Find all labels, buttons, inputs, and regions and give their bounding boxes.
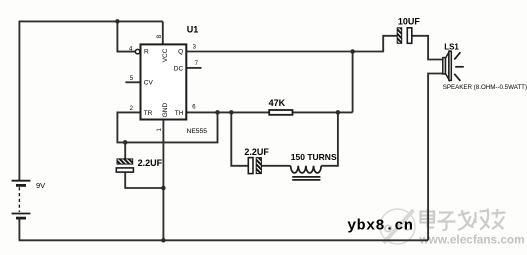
svg-text:CV: CV xyxy=(144,80,154,87)
svg-text:DC: DC xyxy=(174,65,184,72)
wire DC pin 7 stub xyxy=(186,67,201,69)
watermark logo circle (elecfans) xyxy=(380,209,415,244)
wire Q to TH link xyxy=(352,52,354,113)
speaker label LS1 xyxy=(444,42,459,51)
wire to C1 top xyxy=(124,142,126,159)
inductor L1 150 TURNS coil xyxy=(291,166,322,180)
svg-text:10UF: 10UF xyxy=(398,16,421,26)
svg-text:TR: TR xyxy=(144,110,153,117)
battery V1 9V xyxy=(12,181,31,218)
wire bottom rail xyxy=(19,239,429,241)
svg-text:1: 1 xyxy=(157,128,163,132)
capacitor C1 label 2.2UF xyxy=(138,158,163,168)
op-amp U1 NE555 box xyxy=(135,44,186,119)
wire rail to VCC pin 8 xyxy=(162,21,164,44)
pin name DC xyxy=(174,65,184,72)
resistor label 47K xyxy=(269,98,286,108)
capacitor C3 10UF xyxy=(397,28,412,44)
watermark ybx8.cn xyxy=(347,218,413,235)
node Q junction xyxy=(350,49,355,54)
node TH/TR-link xyxy=(215,110,220,115)
pin name TR xyxy=(144,110,153,117)
pin name VCC (rotated) xyxy=(162,48,169,62)
wire Q to C3 xyxy=(353,36,398,52)
capacitor C3 label 10UF xyxy=(398,16,421,26)
watermark chinese characters 电子发烧友 xyxy=(421,209,506,231)
pin number 7 xyxy=(195,61,199,67)
svg-text:ybx8.cn: ybx8.cn xyxy=(347,218,413,235)
wire L1 right to TH xyxy=(321,112,338,165)
pin number 3 xyxy=(193,44,197,50)
speaker LS1 xyxy=(443,51,464,81)
wire CV pin 5 stub xyxy=(125,81,140,83)
U1 part label NE555 xyxy=(187,128,208,135)
svg-text:VCC: VCC xyxy=(162,48,169,62)
wire TH branch to C2 xyxy=(231,112,248,165)
svg-text:5: 5 xyxy=(130,76,134,82)
svg-text:150 TURNS: 150 TURNS xyxy=(291,152,337,162)
speaker subtitle xyxy=(443,84,527,91)
svg-text:2.2UF: 2.2UF xyxy=(138,158,163,168)
wire C2 to L1 xyxy=(262,165,291,167)
svg-text:47K: 47K xyxy=(269,98,286,108)
capacitor C1 2.2UF (under IC) xyxy=(116,159,133,172)
svg-text:NE555: NE555 xyxy=(187,128,208,135)
node TH/C2 branch xyxy=(229,110,234,115)
wire C1 bottom to gnd xyxy=(125,172,163,188)
wire C3 to LS1 top xyxy=(412,36,443,60)
svg-text:TH: TH xyxy=(175,110,184,117)
capacitor C2 2.2UF (series with coil) xyxy=(248,158,261,174)
pin name TH xyxy=(175,110,184,117)
watermark url www.elecfans.com xyxy=(419,233,525,247)
battery label 9V xyxy=(36,181,45,190)
svg-text:2: 2 xyxy=(130,106,134,112)
wire LS1 bottom return xyxy=(428,74,443,241)
pin name R xyxy=(144,49,149,56)
svg-text:www.elecfans.com: www.elecfans.com xyxy=(419,233,525,247)
pin number 5 xyxy=(130,76,134,82)
node TH/L1 branch xyxy=(336,110,341,115)
svg-text:7: 7 xyxy=(195,61,199,67)
wire TR pin 2 net xyxy=(117,112,217,142)
svg-text:Q: Q xyxy=(178,49,183,56)
pin name Q xyxy=(178,49,183,56)
wire battery - to bottom rail xyxy=(18,218,20,240)
svg-text:6: 6 xyxy=(192,105,196,111)
pin name CV xyxy=(144,80,154,87)
node C1/GND xyxy=(161,186,166,191)
node GND/bottom rail xyxy=(161,238,166,243)
pin number 6 xyxy=(192,105,196,111)
svg-text:U1: U1 xyxy=(187,24,199,34)
wire TH pin 6 xyxy=(186,111,352,113)
svg-text:2.2UF: 2.2UF xyxy=(244,147,269,157)
capacitor C2 label 2.2UF xyxy=(244,147,269,157)
wire left rail (battery +) xyxy=(18,21,20,181)
node rail/R xyxy=(115,19,120,24)
svg-text:9V: 9V xyxy=(36,181,45,190)
wire rail to R pin 4 xyxy=(117,21,135,51)
svg-text:R: R xyxy=(144,49,149,56)
pin number 1 (rotated) xyxy=(157,128,163,132)
svg-text:3: 3 xyxy=(193,44,197,50)
svg-text:SPEAKER (8.OHM--0.5WATT): SPEAKER (8.OHM--0.5WATT) xyxy=(443,84,527,91)
svg-text:LS1: LS1 xyxy=(444,42,459,51)
svg-text:GND: GND xyxy=(162,103,169,118)
wire GND pin 1 drop xyxy=(162,120,164,241)
pin name GND (rotated) xyxy=(162,103,169,118)
pin number 8 (rotated) xyxy=(157,34,163,38)
wire top rail xyxy=(19,20,162,22)
wire Q pin 3 output xyxy=(186,51,352,53)
pin number 4 xyxy=(129,46,133,52)
resistor R 47K xyxy=(269,110,292,115)
inductor label 150 TURNS xyxy=(291,152,337,162)
node TR/C1 xyxy=(123,140,128,145)
U1 reference label xyxy=(187,24,199,34)
pin number 2 xyxy=(130,106,134,112)
